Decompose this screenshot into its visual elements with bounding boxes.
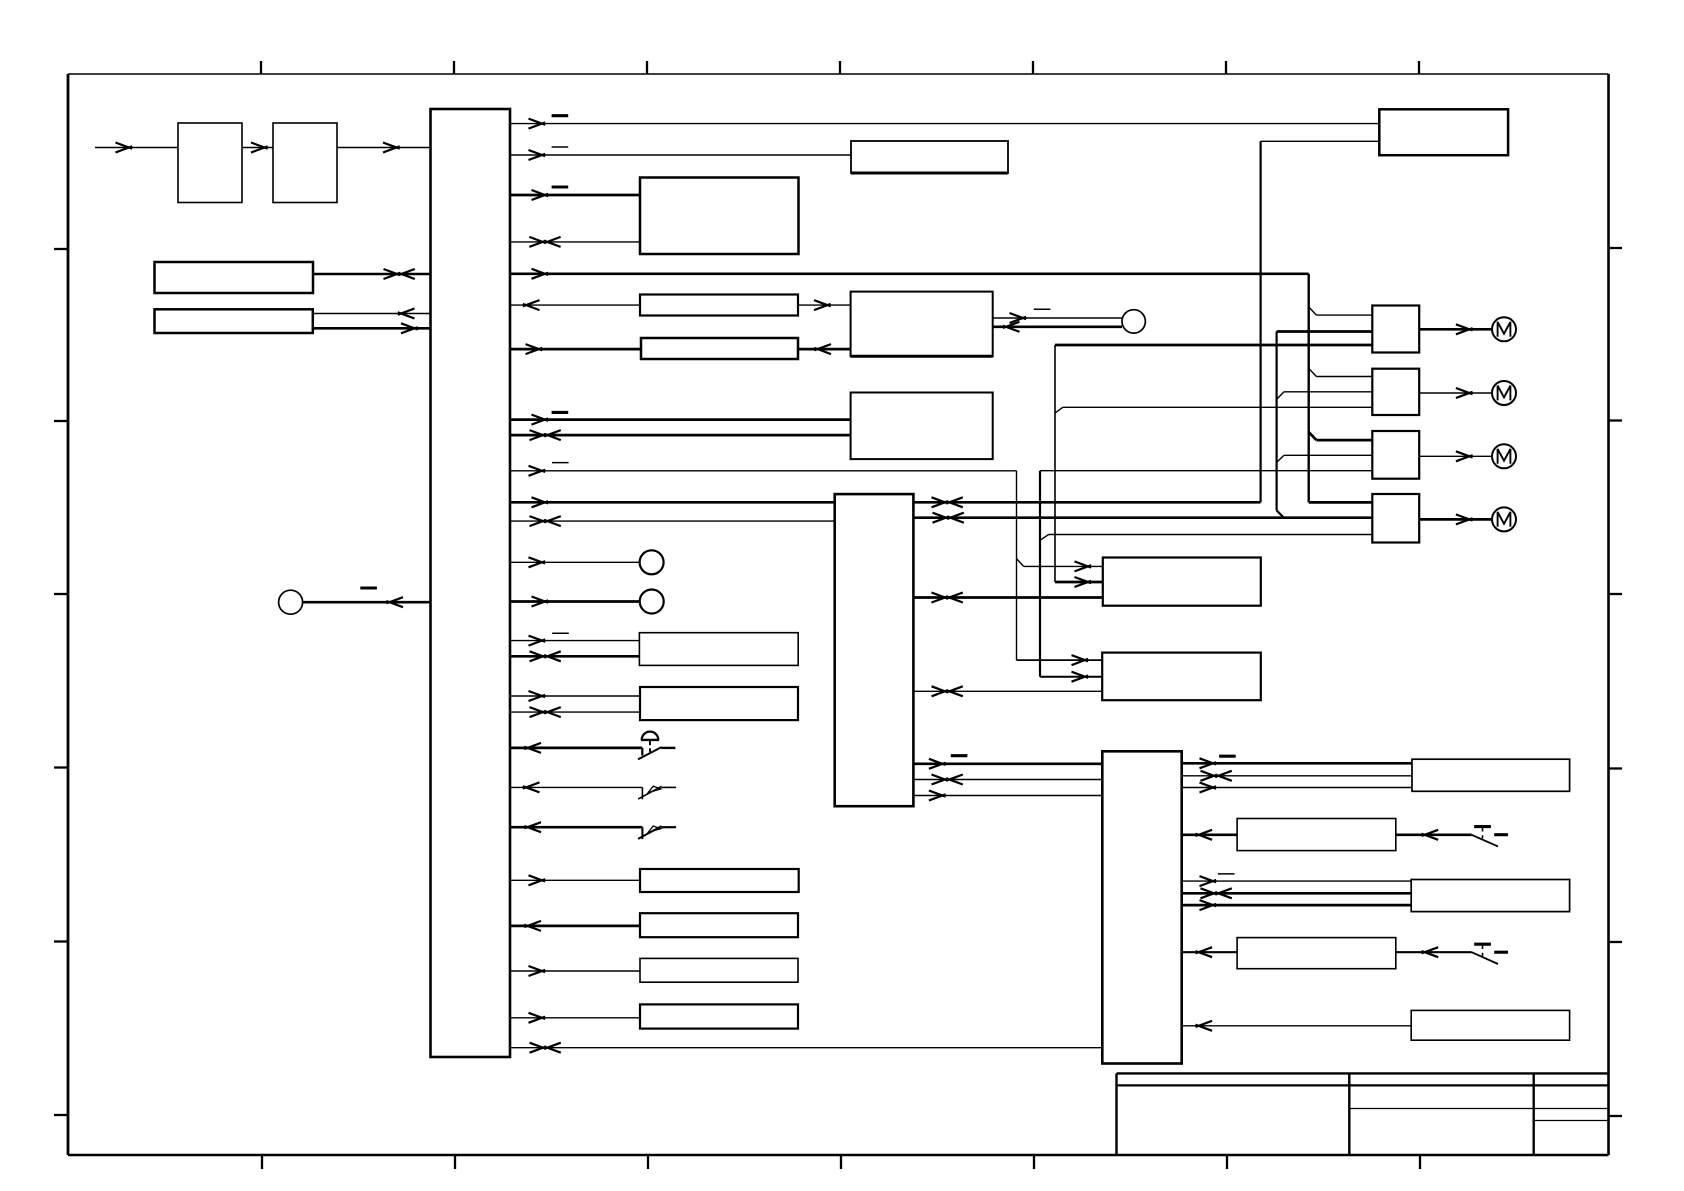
block A1 (input stage 1) — [178, 123, 242, 203]
row13 wire to node circle 1 — [510, 561, 640, 563]
limit switch S2 — [638, 786, 676, 799]
frame centering ticks bottom — [262, 1155, 1420, 1169]
row20 arrow into controller — [523, 782, 540, 792]
chamfer branch to box U2a — [1017, 559, 1024, 567]
row3 wire to box B1 — [510, 194, 640, 197]
arrow toward left node — [386, 597, 403, 607]
row1 wire to top-right box — [510, 123, 1379, 125]
corner wire into D4 — [1309, 501, 1373, 504]
chamfer vertical2 to wire b — [1277, 510, 1284, 517]
motor M1 — [1492, 317, 1516, 341]
row18 wire to box B5 — [510, 711, 640, 713]
row2 arrow — [529, 150, 546, 160]
wire vertical2 to D1 — [1277, 330, 1373, 333]
row21 arrow into controller — [524, 822, 541, 832]
wire F1 to B3 — [798, 348, 851, 351]
wire into D2 (b) — [1284, 391, 1372, 393]
wire D1 to motor M1 — [1419, 328, 1492, 331]
block A4 (wide module lower-left) — [155, 309, 313, 333]
wire D4 to motor M4 — [1419, 518, 1492, 521]
row10 long wire to mid column — [510, 470, 1017, 472]
row3 active-low bar — [552, 185, 569, 188]
bidirectional arrows on wire b — [933, 513, 950, 523]
row24 wire to box B8 — [510, 970, 640, 972]
row19 wire from pushbutton — [510, 747, 642, 750]
wire box R2 to U3 — [1182, 833, 1237, 836]
arrow on U3 wire 6 — [1200, 900, 1217, 910]
box F2 (middle module 2) — [851, 393, 993, 460]
block A2 (input stage 2) — [273, 123, 337, 203]
motor M4 — [1492, 507, 1516, 531]
interlock switch S5 — [1472, 944, 1508, 964]
U3 wire 6 to box R3 — [1182, 904, 1412, 907]
bus wire into top-right box — [1261, 140, 1380, 142]
row17 wire to box B5 — [510, 695, 640, 697]
wire left node to controller — [303, 601, 431, 604]
row22 wire to box B6 — [510, 879, 640, 881]
wire F1 to node circle upper — [993, 317, 1122, 319]
vertical bus line to driver column — [1307, 274, 1309, 503]
motor driver D2 — [1372, 369, 1419, 415]
row15 wire to box B4 — [510, 640, 639, 642]
branch chamfer to driver D3 — [1309, 432, 1317, 440]
row5 long bus wire to motor drivers — [510, 272, 1309, 275]
U3 wire out 1 to box R1 — [1182, 762, 1412, 765]
wire exchange to secondary controller 1 — [913, 762, 1103, 765]
row19 arrow into controller — [524, 743, 541, 753]
active-low bar on U3 wire 4 — [1218, 873, 1235, 875]
arrow to motor M3 — [1456, 451, 1473, 461]
box B8 — [640, 958, 798, 982]
arrow to motor M2 — [1456, 388, 1473, 398]
wire switch S4 to R2 — [1396, 833, 1472, 836]
bidirectional arrows to U2b — [932, 686, 949, 696]
driver feed vertical 2 — [1275, 332, 1277, 511]
row3 arrow — [532, 190, 549, 200]
row26 bidirectional arrows — [530, 1043, 547, 1053]
row6 wire from box B2 — [510, 304, 640, 306]
arrow on wire 1 — [929, 759, 946, 769]
row24 arrow — [529, 966, 546, 976]
indicator node circle left — [279, 590, 303, 614]
bidirectional arrows on bus — [932, 497, 949, 507]
arrow toward A4 upper — [398, 309, 415, 319]
arrow on wire 3 — [929, 791, 946, 801]
box R1 — [1412, 759, 1570, 791]
mid vertical wire 2 — [1039, 471, 1041, 677]
input signal wire — [95, 147, 178, 149]
chamfer vertical2 to D2 — [1277, 392, 1284, 400]
wire D3 to motor M3 — [1419, 455, 1492, 457]
wire A3 to controller — [313, 273, 431, 276]
U3 wire 2 to box R1 — [1182, 775, 1412, 777]
node circle right of F1 — [1122, 310, 1145, 333]
main controller block U1 (tall) — [431, 109, 511, 1057]
row4 wire from box B1 — [510, 241, 640, 243]
row7 wire to box B3 — [510, 348, 641, 351]
wire D2 to motor M2 — [1419, 392, 1492, 394]
wire into D2 (c) — [1063, 406, 1373, 408]
U3 wire 3 to box R1 — [1182, 787, 1412, 789]
wire switch S5 to R4 — [1396, 951, 1472, 953]
U3 wire 4 to box R3 — [1182, 880, 1412, 882]
row6 arrow into controller — [523, 300, 540, 310]
frame centering ticks right — [1609, 248, 1623, 1116]
secondary controller block U3 — [1102, 751, 1181, 1063]
branch wire into D2 — [1316, 376, 1372, 378]
row15 arrow — [529, 636, 546, 646]
wire into D3 (b) — [1284, 454, 1372, 456]
row10 arrow — [529, 466, 546, 476]
arrow into controller — [383, 143, 400, 153]
corner wire vertical2m into U2b — [1040, 676, 1102, 678]
row23 arrow into controller — [524, 921, 541, 931]
arrow into U3 from R5 — [1195, 1021, 1212, 1031]
row11 arrow — [532, 497, 549, 507]
motor driver D1 — [1372, 306, 1419, 353]
arrow into block A2 — [251, 143, 268, 153]
arrow on U3 wire 4 — [1200, 876, 1217, 886]
mid vertical wire 3 — [1054, 345, 1056, 582]
arrow on F1 node wire upper — [1010, 313, 1027, 323]
motor M3 — [1492, 444, 1516, 468]
row25 arrow — [529, 1013, 546, 1023]
row11 wire to exchange block — [510, 501, 835, 504]
row8 wire to F2 — [510, 418, 851, 421]
arrow into U2a — [1075, 561, 1092, 571]
row12 bidirectional arrows — [530, 516, 547, 526]
arrow into R4 — [1422, 947, 1439, 957]
arrow on U3 out 1 — [1200, 758, 1217, 768]
box R4 — [1237, 938, 1396, 969]
row2 wire to box F0 — [510, 154, 851, 156]
wire A2 to controller — [337, 147, 431, 149]
motor driver D4 — [1372, 494, 1419, 543]
row20 wire from limit switch S2 — [510, 786, 642, 788]
interlock switch S4 — [1472, 827, 1508, 847]
arrow into controller from A4 — [401, 323, 418, 333]
corner wire vertical3 into U2a — [1055, 581, 1103, 584]
title block — [1117, 1073, 1609, 1155]
top-right box (display module) — [1379, 109, 1508, 155]
branch wire into D1 — [1316, 314, 1372, 316]
row18 bidirectional arrows — [530, 707, 547, 717]
wire exchange to secondary controller 2 — [913, 779, 1103, 781]
box R5 — [1411, 1010, 1569, 1040]
active-low bar on left node wire — [360, 586, 377, 589]
box B7 — [640, 913, 798, 937]
chamfer vertical2m to D4 feed — [1040, 535, 1049, 541]
arrow into U2a (thick) — [1075, 577, 1092, 587]
arrow into block A1 — [116, 143, 133, 153]
active-low bar on U3 out 1 — [1219, 755, 1236, 758]
row4 bidirectional arrows — [529, 237, 546, 247]
arrow into U3 from R2 — [1195, 830, 1212, 840]
bidirectional arrows on wire 2 — [932, 775, 949, 785]
arrow into R2 — [1422, 830, 1439, 840]
box B2 (thin module) — [640, 295, 798, 316]
frame centering ticks left — [54, 249, 68, 1115]
mid vertical wire 1 — [1016, 471, 1018, 660]
box B9 — [640, 1004, 798, 1028]
bidirectional arrows U3 wire 5 — [1201, 888, 1218, 898]
row14 wire to node circle 2 — [510, 600, 640, 603]
box B5 — [640, 687, 798, 720]
corner wire into box U2b — [1017, 659, 1103, 661]
motor driver D3 — [1372, 431, 1419, 479]
row8 arrow — [532, 415, 549, 425]
node circle 1 — [640, 550, 664, 574]
row9 bidirectional arrows — [530, 430, 547, 440]
arrow into F1 — [814, 300, 831, 310]
active-low bar on wire 1 — [951, 754, 968, 757]
row12 wire to exchange block — [510, 520, 835, 522]
row16 bidirectional arrows — [530, 651, 547, 661]
row10 active-low bar — [552, 462, 569, 464]
arrow into U2b (2) — [1072, 672, 1089, 682]
row17 arrow — [529, 691, 546, 701]
box F1 (middle module) — [851, 292, 993, 357]
wire node circle to F1 lower — [993, 325, 1122, 328]
limit switch S3 — [638, 826, 676, 839]
wire A1 to A2 — [242, 147, 273, 149]
bus vertical riser — [1259, 141, 1261, 502]
chamfer vertical2 to D3 — [1277, 455, 1284, 462]
feed wire to D1 (c) — [1055, 344, 1372, 347]
arrow on F1 node wire lower — [1003, 322, 1020, 332]
row2 active-low bar — [552, 146, 569, 148]
box B1 (process block) — [640, 178, 799, 255]
block A3 (wide module upper-left) — [155, 262, 314, 293]
box B3 (thin module thick) — [641, 338, 798, 359]
feed wire to D3 (c) — [1040, 470, 1372, 472]
branch wire into D3 — [1316, 439, 1372, 442]
row21 wire from limit switch S3 — [510, 826, 642, 829]
branch chamfer to driver D2 — [1309, 368, 1317, 376]
frame centering ticks top — [261, 61, 1419, 74]
row15 active-low bar — [552, 632, 569, 634]
wire B2 to box F1 — [798, 304, 851, 306]
active-low bar on F1 node wire — [1034, 308, 1051, 310]
box U2a (mid right module) — [1103, 558, 1261, 606]
box R3 — [1411, 880, 1569, 912]
row16 wire to box B4 — [510, 655, 639, 658]
row22 arrow — [529, 875, 546, 885]
row23 wire from box B7 — [510, 925, 640, 928]
bidirectional arrows U3 wire 2 — [1201, 771, 1218, 781]
wire exchange to box U2a — [913, 596, 1102, 599]
bidirectional arrows to U2a — [932, 593, 949, 603]
arrow into B3 — [814, 344, 831, 354]
row26 long wire to secondary controller — [510, 1047, 1102, 1049]
arrow to motor M4 — [1456, 514, 1473, 524]
row25 wire to box B9 — [510, 1017, 640, 1019]
branch wire into box U2a — [1024, 565, 1103, 567]
wire box R4 to U3 — [1182, 951, 1237, 953]
pushbutton switch S1 — [638, 732, 675, 760]
box B4 — [639, 633, 798, 666]
row8 active-low bar — [552, 411, 569, 414]
wire box R5 to U3 — [1182, 1025, 1412, 1027]
branch chamfer to driver D1 — [1309, 307, 1317, 315]
box B6 — [640, 869, 799, 892]
row1 active-low bar — [552, 114, 569, 117]
arrow into U2b — [1072, 655, 1089, 665]
chamfer vertical3 to D2 feed — [1055, 407, 1063, 413]
wire exchange to driver column (b) — [913, 516, 1371, 519]
U3 wire 5 to box R3 — [1182, 892, 1412, 895]
row7 arrow — [526, 344, 543, 354]
wire A4 lower (to controller) — [313, 327, 431, 330]
box U2b (mid right module 2) — [1102, 653, 1261, 701]
wire exchange to box U2b — [913, 690, 1102, 692]
arrow on U3 wire 3 — [1200, 783, 1217, 793]
row1 arrow — [529, 119, 546, 129]
row5 arrow — [532, 269, 549, 279]
wire A4 upper (from controller) — [313, 313, 431, 315]
arrow into U3 from R4 — [1195, 947, 1212, 957]
box F0 (upper middle module) — [851, 141, 1008, 173]
exchange block U2 (central tall) — [835, 494, 914, 806]
row14 arrow — [532, 597, 549, 607]
bus wire exchange to top-right box (horizontal) — [913, 501, 1260, 504]
bidirectional arrows on A3 wire — [384, 269, 401, 279]
box R2 — [1237, 819, 1396, 851]
motor M2 — [1492, 381, 1516, 405]
wire into D4 (c) — [1049, 534, 1372, 536]
wire exchange to secondary controller 3 — [913, 795, 1103, 797]
row13 arrow — [529, 557, 546, 567]
node circle 2 — [640, 590, 664, 614]
row9 wire to F2 — [510, 434, 851, 437]
arrow to motor M1 — [1456, 324, 1473, 334]
